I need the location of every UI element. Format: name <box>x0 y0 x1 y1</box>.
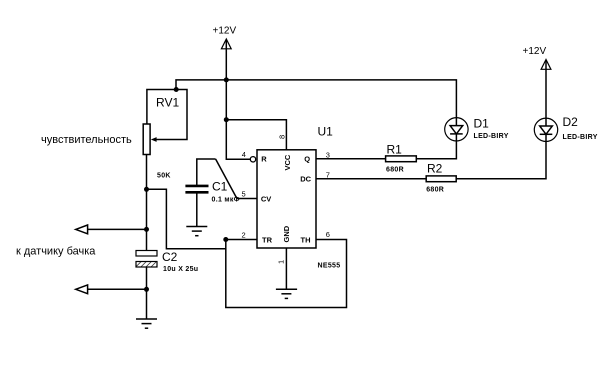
wire branch to TR <box>147 189 226 248</box>
wire CV stub <box>237 198 257 200</box>
svg-text:Q: Q <box>304 155 310 164</box>
LED D1 <box>445 118 468 141</box>
svg-text:1: 1 <box>277 260 286 264</box>
svg-text:C2: C2 <box>162 250 178 264</box>
wire R1 to D1 <box>416 141 456 159</box>
wire D2 top to power <box>545 60 547 118</box>
ground (U1) <box>276 289 297 298</box>
node RV1 loop junction <box>174 87 179 92</box>
svg-text:+12V: +12V <box>213 26 237 37</box>
svg-text:D2: D2 <box>563 115 579 129</box>
capacitor C1 top lead and hook <box>197 159 216 185</box>
svg-text:50K: 50K <box>157 173 171 180</box>
svg-text:GND: GND <box>282 225 291 242</box>
wire TR-TH loop <box>226 240 347 308</box>
svg-text:U1: U1 <box>318 125 334 139</box>
svg-text:R2: R2 <box>427 162 443 176</box>
svg-text:к датчику бачка: к датчику бачка <box>16 246 96 258</box>
svg-text:4: 4 <box>242 150 246 159</box>
terminal arrow input 1 <box>76 228 147 230</box>
wire VCC branch <box>226 120 286 150</box>
power symbol arrow (D2 +12V) <box>541 60 551 70</box>
svg-text:CV: CV <box>261 195 271 204</box>
capacitor C1 bottom lead <box>196 194 198 227</box>
wire R2 to D2 <box>456 142 546 179</box>
node junction TR <box>223 237 228 242</box>
wire TR stub <box>226 239 257 241</box>
svg-text:DC: DC <box>300 174 311 183</box>
svg-text:LED-BIRY: LED-BIRY <box>474 133 509 140</box>
wire top rail <box>176 80 456 118</box>
potentiometer RV1 wiper arrowhead <box>151 137 157 142</box>
terminal arrow input 2 <box>76 288 147 290</box>
svg-text:5: 5 <box>242 190 246 199</box>
svg-text:LED-BIRY: LED-BIRY <box>563 134 598 141</box>
wire GND pin <box>285 248 287 289</box>
resistor R1 <box>386 156 417 162</box>
svg-text:680R: 680R <box>386 167 404 174</box>
svg-text:D1: D1 <box>474 117 490 131</box>
svg-text:VCC: VCC <box>283 154 292 170</box>
IC U1 body (NE555 timer) <box>257 150 316 248</box>
node junction arrow2/C2 <box>144 287 149 292</box>
svg-text:+12V: +12V <box>523 46 547 57</box>
LED D2 <box>534 118 557 141</box>
svg-text:NE555: NE555 <box>318 263 341 270</box>
capacitor C2 negative plate (hatched) <box>136 262 157 268</box>
svg-text:7: 7 <box>326 170 330 179</box>
svg-text:6: 6 <box>326 230 330 239</box>
wire R pin branch <box>226 80 250 159</box>
ground (C2) <box>136 319 157 328</box>
svg-text:3: 3 <box>326 150 330 159</box>
node junction arrow1/C2 <box>144 227 149 232</box>
node junction rail/power <box>224 77 229 82</box>
IC U1 reset pin bubble <box>250 157 255 162</box>
svg-text:чувствительность: чувствительность <box>41 134 132 146</box>
svg-text:680R: 680R <box>426 186 444 193</box>
svg-text:8: 8 <box>277 135 286 139</box>
wire C2 bottom <box>146 267 148 319</box>
node junction VCC/R branch <box>224 117 229 122</box>
capacitor C2 positive plate <box>136 251 157 257</box>
capacitor C1 plates <box>185 185 208 188</box>
svg-text:R: R <box>261 155 267 164</box>
svg-text:TH: TH <box>301 236 311 245</box>
svg-text:C1: C1 <box>212 180 228 194</box>
svg-text:2: 2 <box>242 231 246 240</box>
wire diagonal C1 to pin5 <box>216 159 237 199</box>
ground (C1) <box>186 227 207 236</box>
wire RV1 bottom to C2 column <box>146 155 148 251</box>
svg-text:10u X 25u: 10u X 25u <box>163 266 198 273</box>
resistor R2 <box>426 176 456 182</box>
svg-text:TR: TR <box>262 236 273 245</box>
wire DC to R2 <box>316 178 426 180</box>
wire Q to R1 <box>316 158 386 160</box>
svg-text:R1: R1 <box>387 143 403 157</box>
wire RV1 top loop <box>147 90 187 140</box>
svg-text:RV1: RV1 <box>156 96 179 110</box>
power symbol arrow (main +12V) <box>221 39 231 49</box>
potentiometer RV1 body <box>143 124 150 155</box>
wire power symbol to rail <box>225 40 227 80</box>
node junction pot/TR branch <box>144 187 149 192</box>
svg-text:0.1 мкФ: 0.1 мкФ <box>212 197 240 204</box>
